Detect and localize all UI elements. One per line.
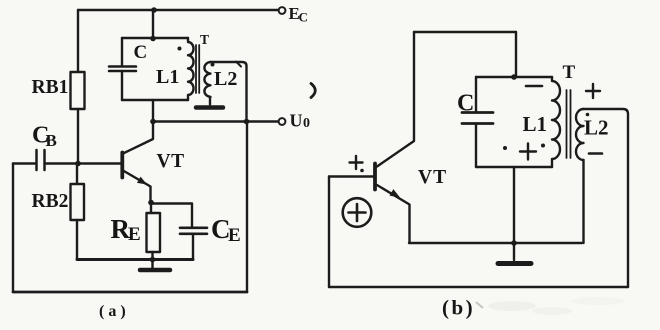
svg-text:RB2: RB2 — [32, 191, 69, 212]
svg-text:0: 0 — [303, 116, 310, 131]
svg-text:U: U — [290, 111, 303, 131]
svg-text:E: E — [128, 224, 141, 245]
svg-text:C: C — [299, 10, 308, 25]
svg-text:(a): (a) — [99, 303, 130, 320]
svg-text:L2: L2 — [584, 116, 609, 140]
svg-text:T: T — [200, 32, 209, 47]
svg-text:C: C — [134, 42, 148, 63]
svg-text:T: T — [563, 62, 576, 83]
svg-text:VT: VT — [157, 151, 185, 172]
svg-text:(b): (b) — [442, 296, 475, 320]
svg-text:E: E — [228, 225, 241, 246]
svg-text:RB1: RB1 — [32, 77, 69, 98]
svg-text:B: B — [46, 131, 57, 150]
svg-text:L2: L2 — [214, 68, 237, 90]
svg-text:VT: VT — [418, 167, 447, 188]
svg-text:L1: L1 — [156, 66, 179, 88]
svg-text:C: C — [457, 91, 474, 117]
svg-text:L1: L1 — [523, 112, 548, 136]
